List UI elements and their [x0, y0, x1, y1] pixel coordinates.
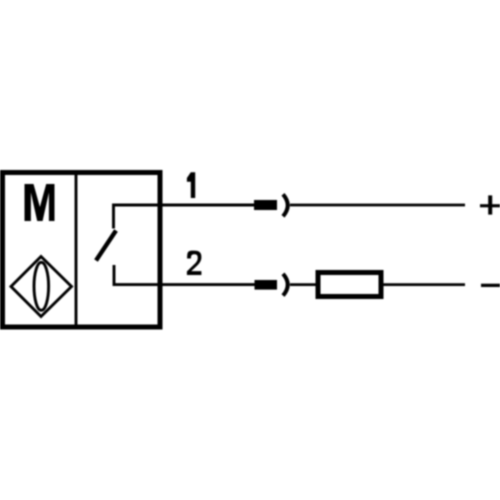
node 2 label: [187, 251, 202, 275]
section divider: [75, 175, 78, 325]
connector socket 2 (female): [283, 274, 288, 296]
switch blade (NO contact): [96, 231, 116, 261]
label M (magnet-operated): [25, 184, 55, 221]
plus terminal: [480, 195, 500, 214]
sensor body box: [3, 173, 161, 328]
wire: contact bottom lead to pin 2: [114, 265, 255, 285]
node 1 label: [187, 172, 195, 198]
wire: resistor to minus terminal: [384, 283, 466, 286]
wire: socket 1 to plus terminal: [290, 204, 465, 207]
sensing-face diamond: [11, 257, 72, 317]
minus terminal: [481, 284, 500, 287]
connector pin 2 (male): [255, 280, 278, 290]
connector pin 1 (male): [254, 200, 277, 210]
wire: socket 2 to resistor: [290, 283, 316, 286]
load resistor R: [318, 273, 381, 297]
wire: contact top lead to pin 1: [114, 205, 255, 229]
magnet ellipse inside diamond: [34, 262, 49, 310]
connector socket 1 (female): [283, 194, 288, 216]
